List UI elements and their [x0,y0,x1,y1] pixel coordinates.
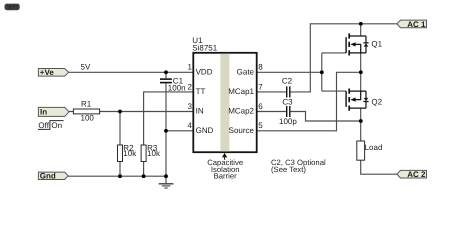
svg-text:In: In [40,108,47,117]
svg-text:IN: IN [196,107,204,116]
svg-text:VDD: VDD [196,67,213,76]
svg-text:On: On [51,121,62,130]
svg-text:100p: 100p [279,117,297,126]
svg-text:10k: 10k [123,149,137,158]
svg-text:MCap2: MCap2 [228,107,254,116]
svg-text:C3: C3 [282,97,293,106]
svg-text:10k: 10k [147,149,161,158]
svg-text:Q1: Q1 [371,40,382,49]
svg-text:2: 2 [188,82,193,91]
svg-text:1: 1 [188,63,193,72]
svg-text:C2: C2 [282,76,293,85]
svg-text:AC 2: AC 2 [407,170,426,179]
svg-text:AC 1: AC 1 [407,20,426,29]
svg-text:5: 5 [258,121,263,130]
svg-text:TT: TT [196,87,206,96]
svg-text:R1: R1 [81,99,92,108]
svg-text:7: 7 [258,82,263,91]
svg-text:GND: GND [196,126,214,135]
svg-text:Barrier: Barrier [214,172,238,181]
svg-text:100n: 100n [168,84,186,93]
svg-text:6: 6 [258,102,263,111]
svg-text:Source: Source [229,126,255,135]
svg-text:Q2: Q2 [371,97,382,106]
svg-text:Si8751: Si8751 [192,43,217,52]
svg-text:Gate: Gate [237,67,255,76]
svg-text:(See Text): (See Text) [271,165,306,174]
svg-text:+Ve: +Ve [40,68,55,77]
svg-text:4: 4 [188,121,193,130]
svg-text:5V: 5V [81,62,91,71]
svg-text:3: 3 [188,102,193,111]
svg-text:Off: Off [38,121,49,130]
svg-text:Load: Load [365,143,383,152]
svg-text:SETS: SETS [6,5,19,11]
svg-text:8: 8 [258,63,263,72]
svg-text:100: 100 [81,114,95,123]
svg-text:MCap1: MCap1 [228,87,254,96]
svg-text:Gnd: Gnd [40,172,56,181]
